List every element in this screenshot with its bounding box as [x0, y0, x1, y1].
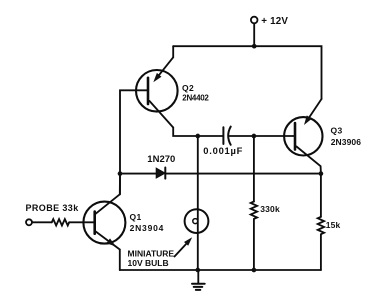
node top-rail-12V: [252, 44, 257, 49]
svg-text:+ 12V: + 12V: [261, 16, 288, 27]
svg-text:2N4402: 2N4402: [182, 93, 209, 102]
svg-text:1N270: 1N270: [147, 154, 175, 165]
svg-text:15k: 15k: [326, 220, 341, 230]
wire: [32, 221, 52, 223]
svg-text:0.001µF: 0.001µF: [203, 145, 243, 156]
terminal +12V: [251, 17, 258, 24]
wire: [197, 136, 199, 270]
wire: [120, 269, 321, 271]
svg-text:Q1: Q1: [130, 212, 142, 222]
resistor R1 33k: [52, 219, 69, 225]
node collector-Q3: [319, 171, 324, 176]
wire: [119, 250, 121, 271]
label arrow to bulb: [175, 237, 193, 256]
lamp bulb: [185, 209, 209, 233]
svg-text:Q2: Q2: [182, 83, 194, 93]
label MINIATURE 10V BULB: [128, 248, 175, 268]
wire: [120, 90, 148, 194]
wire: [172, 46, 174, 57]
svg-text:2N3904: 2N3904: [130, 223, 165, 233]
diode D1 1N270: [156, 168, 165, 179]
wire: [173, 128, 223, 137]
resistor R3 15k: [318, 174, 324, 270]
capacitor C1: [223, 127, 230, 145]
wire: [165, 173, 321, 175]
wire: [173, 46, 321, 99]
wire: [253, 23, 255, 46]
svg-text:330k: 330k: [260, 204, 280, 214]
node bottom-330k: [252, 268, 257, 273]
transistor Q1: [83, 194, 125, 249]
svg-text:2N3906: 2N3906: [331, 137, 362, 147]
node bottom-bulb: [195, 268, 200, 273]
wire: [229, 135, 295, 137]
resistor R2 330k: [251, 136, 257, 270]
svg-text:MINIATURE: MINIATURE: [128, 248, 175, 258]
wire: [119, 174, 121, 195]
node cap-330k: [252, 134, 257, 139]
transistor Q2: [136, 57, 178, 127]
node diode-left: [118, 171, 123, 176]
terminal probe: [26, 219, 32, 225]
node cap-bulb: [195, 134, 200, 139]
ground: [192, 270, 205, 290]
wire: [120, 173, 156, 175]
svg-text:10V BULB: 10V BULB: [128, 258, 169, 268]
transistor Q3: [284, 99, 322, 174]
wire: [69, 221, 95, 223]
svg-text:PROBE 33k: PROBE 33k: [26, 203, 80, 213]
svg-text:Q3: Q3: [331, 126, 343, 136]
